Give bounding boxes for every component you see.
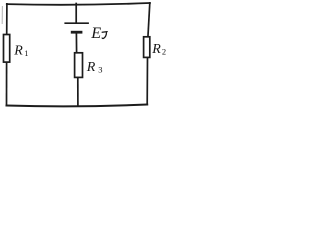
battery E short plate — [71, 31, 83, 34]
svg-text:3: 3 — [98, 65, 102, 75]
wire right edge lower — [146, 57, 148, 105]
wire right edge upper — [148, 3, 150, 38]
label E,r — [90, 24, 107, 42]
wire middle branch mid stub — [75, 33, 77, 53]
wire left edge upper — [6, 4, 8, 36]
wire middle branch bottom stub — [77, 78, 79, 105]
wire middle branch top stub — [75, 4, 77, 23]
label R2 — [151, 42, 166, 57]
label R3 — [86, 60, 103, 75]
label R1 — [13, 44, 28, 59]
svg-text:R: R — [86, 60, 96, 75]
wire top edge — [7, 3, 150, 5]
wire left edge lower — [6, 62, 8, 106]
svg-text:1: 1 — [24, 48, 28, 58]
resistor R1 — [4, 35, 10, 63]
scan smudge artifact left edge — [1, 6, 3, 24]
resistor R3 — [75, 53, 83, 78]
battery E long plate — [64, 22, 89, 24]
wire bottom edge — [7, 105, 148, 107]
svg-text:E: E — [90, 24, 101, 42]
svg-text:R: R — [13, 44, 23, 59]
svg-text:2: 2 — [162, 46, 166, 56]
svg-text:R: R — [151, 42, 161, 57]
resistor R2 — [144, 37, 150, 58]
